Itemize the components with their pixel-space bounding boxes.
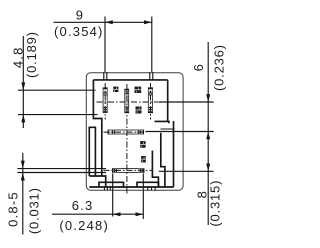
svg-text:(0.031): (0.031) xyxy=(27,187,42,234)
svg-text:0.8-5: 0.8-5 xyxy=(6,191,21,227)
svg-text:(0.248): (0.248) xyxy=(59,218,109,233)
svg-text:6.3: 6.3 xyxy=(72,198,94,213)
svg-text:6: 6 xyxy=(191,63,206,71)
svg-text:9: 9 xyxy=(76,7,84,22)
svg-text:(0.236): (0.236) xyxy=(212,44,227,91)
svg-text:(0.315): (0.315) xyxy=(208,180,223,227)
svg-text:(0.189): (0.189) xyxy=(24,31,39,78)
svg-text:(0.354): (0.354) xyxy=(54,24,104,39)
svg-text:4.8: 4.8 xyxy=(10,46,25,68)
